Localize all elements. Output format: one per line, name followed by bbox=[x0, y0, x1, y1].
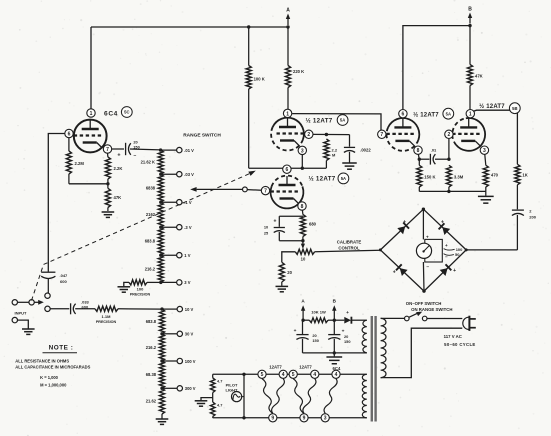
wire 1.1M to 10V node bbox=[118, 308, 162, 310]
label 1.1M PRECISION bbox=[96, 314, 117, 324]
wire heater top bus bbox=[213, 373, 367, 375]
svg-text:½ 12AT7: ½ 12AT7 bbox=[305, 118, 332, 125]
svg-text:220 K: 220 K bbox=[293, 69, 304, 74]
label 50-60 CYCLE bbox=[444, 342, 476, 347]
svg-text:8: 8 bbox=[301, 204, 304, 210]
transformer HV secondary winding bbox=[362, 320, 367, 353]
svg-text:4.7: 4.7 bbox=[217, 403, 222, 408]
pin 3 of V2B bbox=[480, 146, 488, 154]
svg-text:6C4: 6C4 bbox=[104, 111, 118, 118]
svg-text:ALL RESISTANCE IN OHMS: ALL RESISTANCE IN OHMS bbox=[15, 359, 69, 364]
resistor 47K plate bbox=[467, 26, 472, 110]
rectifier diode bbox=[334, 311, 367, 324]
resistor 2.2M grid leak bbox=[66, 138, 71, 184]
label 47K (right) bbox=[475, 74, 483, 79]
svg-text:30 V: 30 V bbox=[185, 332, 194, 337]
svg-text:.01 V: .01 V bbox=[184, 148, 194, 153]
badge 5B (V2B) bbox=[509, 103, 520, 114]
label meter 100/50 bbox=[444, 247, 464, 257]
svg-text:5: 5 bbox=[292, 372, 295, 378]
svg-text:.03 V: .03 V bbox=[184, 172, 194, 177]
svg-text:5A: 5A bbox=[340, 118, 345, 123]
AC plug bbox=[463, 316, 476, 331]
wire B+ top rail bbox=[91, 26, 288, 28]
label ON RANGE SWITCH bbox=[411, 307, 452, 312]
wire primary bottom to plug bbox=[381, 328, 463, 377]
svg-text:683.8: 683.8 bbox=[145, 239, 156, 244]
svg-text:5A: 5A bbox=[446, 111, 451, 116]
svg-text:+: + bbox=[426, 234, 429, 239]
svg-text:CONTROL: CONTROL bbox=[338, 245, 360, 250]
tube V3A internals bbox=[271, 176, 300, 204]
svg-text:7: 7 bbox=[106, 147, 109, 153]
node cathode junction bbox=[106, 182, 109, 185]
svg-text:4: 4 bbox=[313, 372, 316, 378]
svg-text:9: 9 bbox=[303, 416, 306, 422]
pin 3 heater 6C4 bbox=[321, 414, 329, 422]
wire V2A cathode pin3 drop bbox=[301, 155, 304, 170]
node cathode/pot junction bbox=[301, 239, 304, 242]
pin 9 heater V3 bbox=[300, 414, 308, 422]
wire 6C4 plate lead bbox=[90, 27, 92, 109]
filament V3 b bbox=[303, 379, 316, 414]
svg-text:+: + bbox=[403, 219, 406, 225]
svg-text:+: + bbox=[441, 219, 444, 225]
wire filter common bbox=[303, 351, 367, 354]
pin 7 of 6C4 bbox=[103, 145, 111, 153]
wire cathode common bbox=[419, 190, 486, 193]
resistor 47K bbox=[105, 184, 110, 211]
label 100 PRECISION bbox=[130, 287, 151, 297]
node A (supply, arrow up) bbox=[301, 299, 306, 322]
pin 5 heater V2 bbox=[258, 370, 266, 378]
wire 6C4 grid to input cap bbox=[48, 134, 65, 272]
ground filter common bbox=[326, 353, 342, 364]
label PILOT LIGHT bbox=[226, 382, 239, 392]
label 470 bbox=[491, 173, 499, 178]
svg-text:6: 6 bbox=[402, 112, 405, 118]
svg-text:1: 1 bbox=[469, 112, 472, 118]
svg-text:INPUT: INPUT bbox=[15, 311, 28, 316]
pin 2 of V2B bbox=[445, 130, 453, 138]
svg-text:RANGE SWITCH: RANGE SWITCH bbox=[183, 133, 221, 139]
svg-text:150: 150 bbox=[133, 145, 140, 150]
svg-text:2: 2 bbox=[307, 132, 310, 138]
svg-text:3.3M: 3.3M bbox=[454, 175, 464, 180]
svg-text:K = 1,000: K = 1,000 bbox=[40, 375, 59, 380]
capacitor 20/150 filter B bbox=[328, 320, 350, 353]
ground under .0022 bbox=[342, 163, 356, 169]
label 12AT7 heater 1 bbox=[269, 364, 282, 369]
capacitor 2/200 bbox=[512, 210, 524, 250]
svg-text:600: 600 bbox=[82, 304, 89, 309]
svg-text:1 V: 1 V bbox=[184, 253, 190, 258]
label .01 bbox=[431, 148, 437, 153]
svg-text:12AT7: 12AT7 bbox=[269, 364, 282, 369]
svg-text:CALIBRATE: CALIBRATE bbox=[337, 240, 362, 245]
pin 3 of V2A bbox=[298, 146, 306, 154]
svg-text:4: 4 bbox=[335, 372, 338, 378]
capacitor 10/25 bypass bbox=[274, 216, 303, 241]
label 2.2K bbox=[114, 166, 123, 171]
resistor 680 cathode bbox=[300, 210, 305, 242]
svg-text:½ 12AT7: ½ 12AT7 bbox=[479, 103, 505, 110]
label .033 600 bbox=[81, 300, 90, 310]
wire V2A grid net bbox=[313, 133, 350, 136]
range switch lower chain (683.8/216.2/68.38/21.62 with taps 10V-300V) bbox=[146, 306, 196, 414]
tube 6C4 V1 internals bbox=[74, 120, 103, 148]
label 47K bbox=[114, 195, 122, 200]
pin 4 heater V2 bbox=[279, 370, 287, 378]
wire bridge diamond bbox=[379, 208, 468, 293]
resistor 150K bbox=[417, 159, 422, 191]
svg-text:3 V: 3 V bbox=[184, 280, 190, 285]
diode bridge top-right bbox=[439, 219, 451, 235]
capacitor .033/600 bbox=[71, 303, 95, 314]
svg-text:9: 9 bbox=[271, 416, 274, 422]
svg-text:47K: 47K bbox=[114, 195, 122, 200]
wire cathode bias bottom bbox=[69, 183, 108, 185]
wire heater bottom bus bbox=[213, 417, 367, 419]
pin 6 of V3B bbox=[399, 110, 407, 118]
svg-text:6: 6 bbox=[286, 167, 289, 173]
svg-text:+: + bbox=[453, 268, 456, 274]
label 6C4 heater bbox=[333, 366, 341, 371]
wire grid pin2 V2B bbox=[448, 139, 450, 160]
tube 6C4 V1 envelope bbox=[74, 120, 107, 153]
badge 5A (V3B) bbox=[443, 108, 454, 119]
wire switch to plug bbox=[427, 318, 462, 320]
resistor 4.7 upper bbox=[210, 374, 215, 397]
label NOTE heading bbox=[43, 345, 78, 353]
svg-text:+: + bbox=[445, 243, 448, 248]
svg-text:100 V: 100 V bbox=[185, 359, 196, 364]
svg-text:LIGHT: LIGHT bbox=[226, 387, 239, 392]
svg-text:.0022: .0022 bbox=[360, 148, 371, 153]
svg-text:A: A bbox=[286, 8, 290, 14]
svg-text:2: 2 bbox=[448, 132, 451, 138]
svg-text:10: 10 bbox=[301, 256, 306, 261]
tube V2B half-12AT7 envelope bbox=[452, 118, 485, 151]
label INPUT bbox=[15, 311, 28, 316]
resistor 100K plate load bbox=[246, 27, 251, 168]
filament V2 b bbox=[272, 379, 285, 414]
svg-text:470: 470 bbox=[491, 173, 499, 178]
svg-text:200: 200 bbox=[529, 215, 536, 220]
svg-text:3: 3 bbox=[483, 148, 486, 154]
pin 7 of V3A bbox=[261, 186, 269, 194]
pin 4 heater 6C4 bbox=[332, 370, 340, 378]
svg-text:21.62 K: 21.62 K bbox=[141, 160, 155, 165]
ground under 20 bbox=[276, 286, 289, 291]
tube V3B internals bbox=[386, 118, 415, 146]
svg-text:6: 6 bbox=[68, 131, 71, 137]
pin 9 heater V2 bbox=[269, 414, 277, 422]
svg-text:8: 8 bbox=[417, 148, 420, 154]
label ON-OFF SWITCH bbox=[406, 301, 442, 306]
svg-text:−: − bbox=[134, 153, 137, 159]
resistor 470 bbox=[483, 165, 488, 191]
svg-text:½ 12AT7: ½ 12AT7 bbox=[308, 176, 335, 183]
svg-text:3: 3 bbox=[324, 416, 327, 422]
svg-text:ALL CAPACITANCE IN MICROFAR: ALL CAPACITANCE IN MICROFARADS bbox=[15, 365, 90, 370]
label half-12AT7 V2A bbox=[305, 118, 332, 125]
svg-text:10: 10 bbox=[264, 225, 268, 230]
svg-text:100 K: 100 K bbox=[254, 77, 265, 82]
potentiometer 10 calibrate bbox=[295, 243, 314, 255]
svg-text:PRECISION: PRECISION bbox=[96, 320, 117, 324]
pin 7 of V3B bbox=[378, 130, 386, 138]
node V2B grid junction bbox=[447, 158, 450, 161]
wire 6C4 cathode out bbox=[112, 148, 124, 150]
capacitor 20/150 filter A bbox=[294, 320, 319, 353]
ground bottom of lower chain bbox=[156, 414, 169, 424]
pin 1 of V2A bbox=[283, 109, 291, 117]
diode bridge bottom-left bbox=[393, 264, 408, 276]
svg-text:NOTE :: NOTE : bbox=[49, 345, 74, 352]
label 100K bbox=[254, 77, 265, 82]
resistor 3.3M bbox=[446, 165, 451, 191]
wire meter top feed bbox=[423, 209, 429, 239]
tube V3A half-12AT7 envelope bbox=[271, 176, 304, 209]
note line capacitance bbox=[15, 365, 90, 370]
svg-text:2162: 2162 bbox=[146, 212, 156, 217]
svg-text:5A: 5A bbox=[341, 176, 346, 181]
wire pot left leg bbox=[282, 252, 296, 262]
svg-text:47K: 47K bbox=[475, 74, 483, 79]
svg-text:+: + bbox=[346, 311, 349, 316]
svg-text:600: 600 bbox=[60, 279, 67, 284]
badge 5C bbox=[121, 107, 132, 118]
svg-text:5: 5 bbox=[261, 372, 264, 378]
svg-text:300 V: 300 V bbox=[185, 386, 196, 391]
label 10 25 bbox=[264, 225, 269, 236]
svg-text:68.38: 68.38 bbox=[146, 372, 157, 377]
pin 1 of 6C4 bbox=[87, 109, 95, 117]
wire 1K to cap bbox=[516, 185, 518, 210]
terminal AC select lower bbox=[45, 306, 50, 311]
label CALIBRATE CONTROL bbox=[337, 240, 362, 251]
resistor 1K bbox=[515, 164, 520, 185]
svg-text:ON–OFF SWITCH: ON–OFF SWITCH bbox=[406, 301, 442, 306]
svg-text:5C: 5C bbox=[124, 110, 129, 115]
label 117 V AC bbox=[444, 334, 462, 339]
tube V2A internals bbox=[277, 118, 305, 146]
wire primary top to switch bbox=[381, 317, 405, 319]
pin 1 of V2B bbox=[466, 110, 474, 118]
svg-text:+: + bbox=[393, 269, 396, 275]
dashed gang linkage bbox=[32, 171, 256, 301]
label 4.7 upper bbox=[217, 379, 222, 384]
label RANGE SWITCH bbox=[183, 133, 221, 139]
tube V2B internals bbox=[452, 118, 481, 146]
wire bias bus bbox=[249, 167, 327, 169]
transformer heater winding bbox=[362, 374, 367, 418]
label 6C4 bbox=[104, 111, 118, 118]
node B (supply tap, arrow up) bbox=[468, 7, 472, 24]
pin 8 of V3B bbox=[414, 146, 422, 154]
resistor 1.1M precision bbox=[95, 306, 118, 311]
pin 6 of V3A bbox=[283, 165, 291, 173]
svg-text:216.2: 216.2 bbox=[145, 266, 156, 271]
resistor 10K 1W bbox=[303, 318, 334, 323]
tube V2A half-12AT7 envelope bbox=[271, 118, 304, 151]
svg-text:1: 1 bbox=[90, 111, 93, 117]
transformer primary winding bbox=[381, 318, 386, 377]
tube V3B half-12AT7 envelope bbox=[386, 118, 419, 151]
label 2.2M bbox=[75, 161, 85, 166]
label 1K bbox=[522, 173, 527, 178]
svg-text:1.1M: 1.1M bbox=[102, 314, 112, 319]
resistor 20 bbox=[279, 262, 284, 286]
svg-text:100: 100 bbox=[137, 287, 144, 292]
svg-text:+: + bbox=[294, 329, 297, 334]
svg-text:50–60 CYCLE: 50–60 CYCLE bbox=[444, 342, 476, 347]
resistor 2.2M grid bbox=[324, 139, 329, 168]
badge 5A (V3A) bbox=[338, 173, 349, 184]
meter M1 (100uA/50) bbox=[416, 243, 431, 258]
transformer core bbox=[371, 316, 377, 422]
resistor 4.7 lower bbox=[210, 398, 215, 418]
label .0022 bbox=[360, 148, 371, 153]
wire lower terminal to .033 cap bbox=[50, 308, 69, 310]
capacitor .01 coupling bbox=[419, 154, 449, 165]
node B junction bbox=[468, 24, 471, 27]
input selector arrow bbox=[34, 300, 44, 305]
svg-text:1K: 1K bbox=[522, 173, 527, 178]
resistor 220K plate load bbox=[285, 27, 290, 109]
node plate-supply junction bbox=[247, 25, 290, 28]
label half-12AT7 V3B bbox=[413, 112, 439, 119]
label 10 (pot) bbox=[301, 256, 306, 261]
svg-text:.01: .01 bbox=[431, 148, 437, 153]
wire V2B plate to 1K bbox=[473, 110, 517, 164]
range switch wiper arm bbox=[190, 187, 261, 192]
svg-text:+: + bbox=[274, 219, 277, 225]
label half-12AT7 V3A bbox=[308, 176, 335, 183]
pin 2 of V2A bbox=[305, 130, 313, 138]
ground hum balance bbox=[195, 398, 213, 407]
svg-text:½ 12AT7: ½ 12AT7 bbox=[413, 112, 439, 119]
pilot lamp bbox=[232, 392, 245, 402]
wire 3V level to 100 ohm bbox=[147, 281, 161, 283]
svg-text:50: 50 bbox=[455, 252, 460, 257]
svg-text:5B: 5B bbox=[512, 106, 517, 111]
svg-text:10K 1W: 10K 1W bbox=[311, 309, 326, 314]
svg-text:.047: .047 bbox=[60, 273, 69, 278]
ground under 470 bbox=[478, 191, 494, 203]
ground under 47K bbox=[102, 212, 115, 217]
wire heater riser bbox=[242, 373, 245, 420]
label 2 200 bbox=[529, 209, 536, 220]
svg-text:4.7: 4.7 bbox=[217, 379, 222, 384]
badge 5A (V2A) bbox=[337, 115, 348, 126]
svg-text:ON RANGE SWITCH: ON RANGE SWITCH bbox=[411, 307, 452, 312]
svg-text:683.8: 683.8 bbox=[146, 319, 157, 324]
pin 5 heater V3 bbox=[289, 370, 297, 378]
svg-text:PRECISION: PRECISION bbox=[130, 293, 151, 297]
svg-text:−: − bbox=[426, 265, 429, 270]
label 2.2 M bbox=[332, 148, 338, 158]
svg-text:6838: 6838 bbox=[146, 186, 156, 191]
capacitor .0022 bbox=[344, 135, 355, 163]
note line resistance bbox=[15, 359, 69, 364]
wire V3B cathode drop bbox=[418, 155, 421, 161]
label 4.7 lower bbox=[217, 403, 222, 408]
pin 6 of 6C4 bbox=[65, 129, 73, 137]
label .047 600 bbox=[60, 273, 69, 284]
svg-text:2.2K: 2.2K bbox=[114, 166, 123, 171]
svg-text:2.2M: 2.2M bbox=[75, 161, 85, 166]
label 20 bbox=[287, 270, 292, 275]
label 10K 1W bbox=[311, 309, 326, 314]
filament V2 a bbox=[262, 379, 273, 414]
svg-text:216.2: 216.2 bbox=[146, 345, 157, 350]
range switch upper chain (21.62K/6838/2162/683.8/216.2 with taps .01V-.3V-3V) bbox=[141, 147, 194, 285]
node B (supply, arrow up) bbox=[332, 299, 337, 322]
input ground jack bbox=[12, 317, 34, 334]
resistor 100 precision bbox=[129, 280, 147, 285]
resistor 2.2K cathode bbox=[105, 153, 110, 184]
capacitor 20/150 electrolytic bbox=[117, 140, 160, 160]
ground left of 100 ohm bbox=[118, 282, 131, 292]
svg-text:10 V: 10 V bbox=[185, 307, 194, 312]
pin 4 heater V3 bbox=[311, 370, 319, 378]
switch on-off bbox=[405, 312, 428, 321]
note line K bbox=[40, 375, 59, 380]
label 150K bbox=[424, 175, 435, 180]
wire V3B plate rail bbox=[403, 26, 470, 110]
svg-text:21.62: 21.62 bbox=[146, 399, 157, 404]
svg-text:680: 680 bbox=[309, 222, 317, 227]
label 220K bbox=[293, 69, 304, 74]
wire V2B cathode drop bbox=[485, 155, 486, 166]
diode bridge bottom-right bbox=[440, 264, 456, 276]
label 12AT7 heater 2 bbox=[299, 364, 312, 369]
label 680 bbox=[309, 222, 317, 227]
pin 8 of V3A bbox=[298, 202, 306, 210]
svg-text:150: 150 bbox=[344, 339, 351, 344]
svg-text:B: B bbox=[468, 7, 472, 13]
terminal AC select upper bbox=[45, 293, 50, 298]
wire meter bottom bbox=[423, 262, 429, 291]
svg-text:1: 1 bbox=[286, 111, 289, 117]
input jack bbox=[12, 300, 34, 305]
node A (supply tap, arrow up) bbox=[286, 8, 290, 26]
filament V3 a bbox=[293, 379, 304, 414]
diode bridge top-left bbox=[397, 219, 409, 234]
note line M bbox=[40, 383, 67, 388]
wire V2A plate to V3A grid-pin7 bbox=[292, 114, 381, 130]
svg-text:3: 3 bbox=[301, 148, 304, 154]
svg-text:+: + bbox=[117, 153, 120, 159]
svg-text:100: 100 bbox=[456, 247, 463, 252]
svg-text:.1 V: .1 V bbox=[184, 200, 192, 205]
capacitor .047/600 bbox=[41, 272, 55, 293]
svg-text:12AT7: 12AT7 bbox=[299, 364, 312, 369]
svg-text:.3 V: .3 V bbox=[184, 225, 192, 230]
svg-text:150: 150 bbox=[312, 338, 319, 343]
filament 6C4 bbox=[324, 379, 337, 414]
svg-text:4: 4 bbox=[282, 372, 285, 378]
node attenuator top bbox=[159, 148, 162, 151]
svg-text:M = 1,000,000: M = 1,000,000 bbox=[40, 383, 67, 388]
svg-text:7: 7 bbox=[264, 189, 267, 195]
wire cap to bridge right bbox=[466, 249, 517, 251]
meter shunt box bbox=[425, 239, 448, 262]
wire pot to bridge left bbox=[315, 250, 381, 252]
label half-12AT7 V2B bbox=[479, 103, 505, 110]
